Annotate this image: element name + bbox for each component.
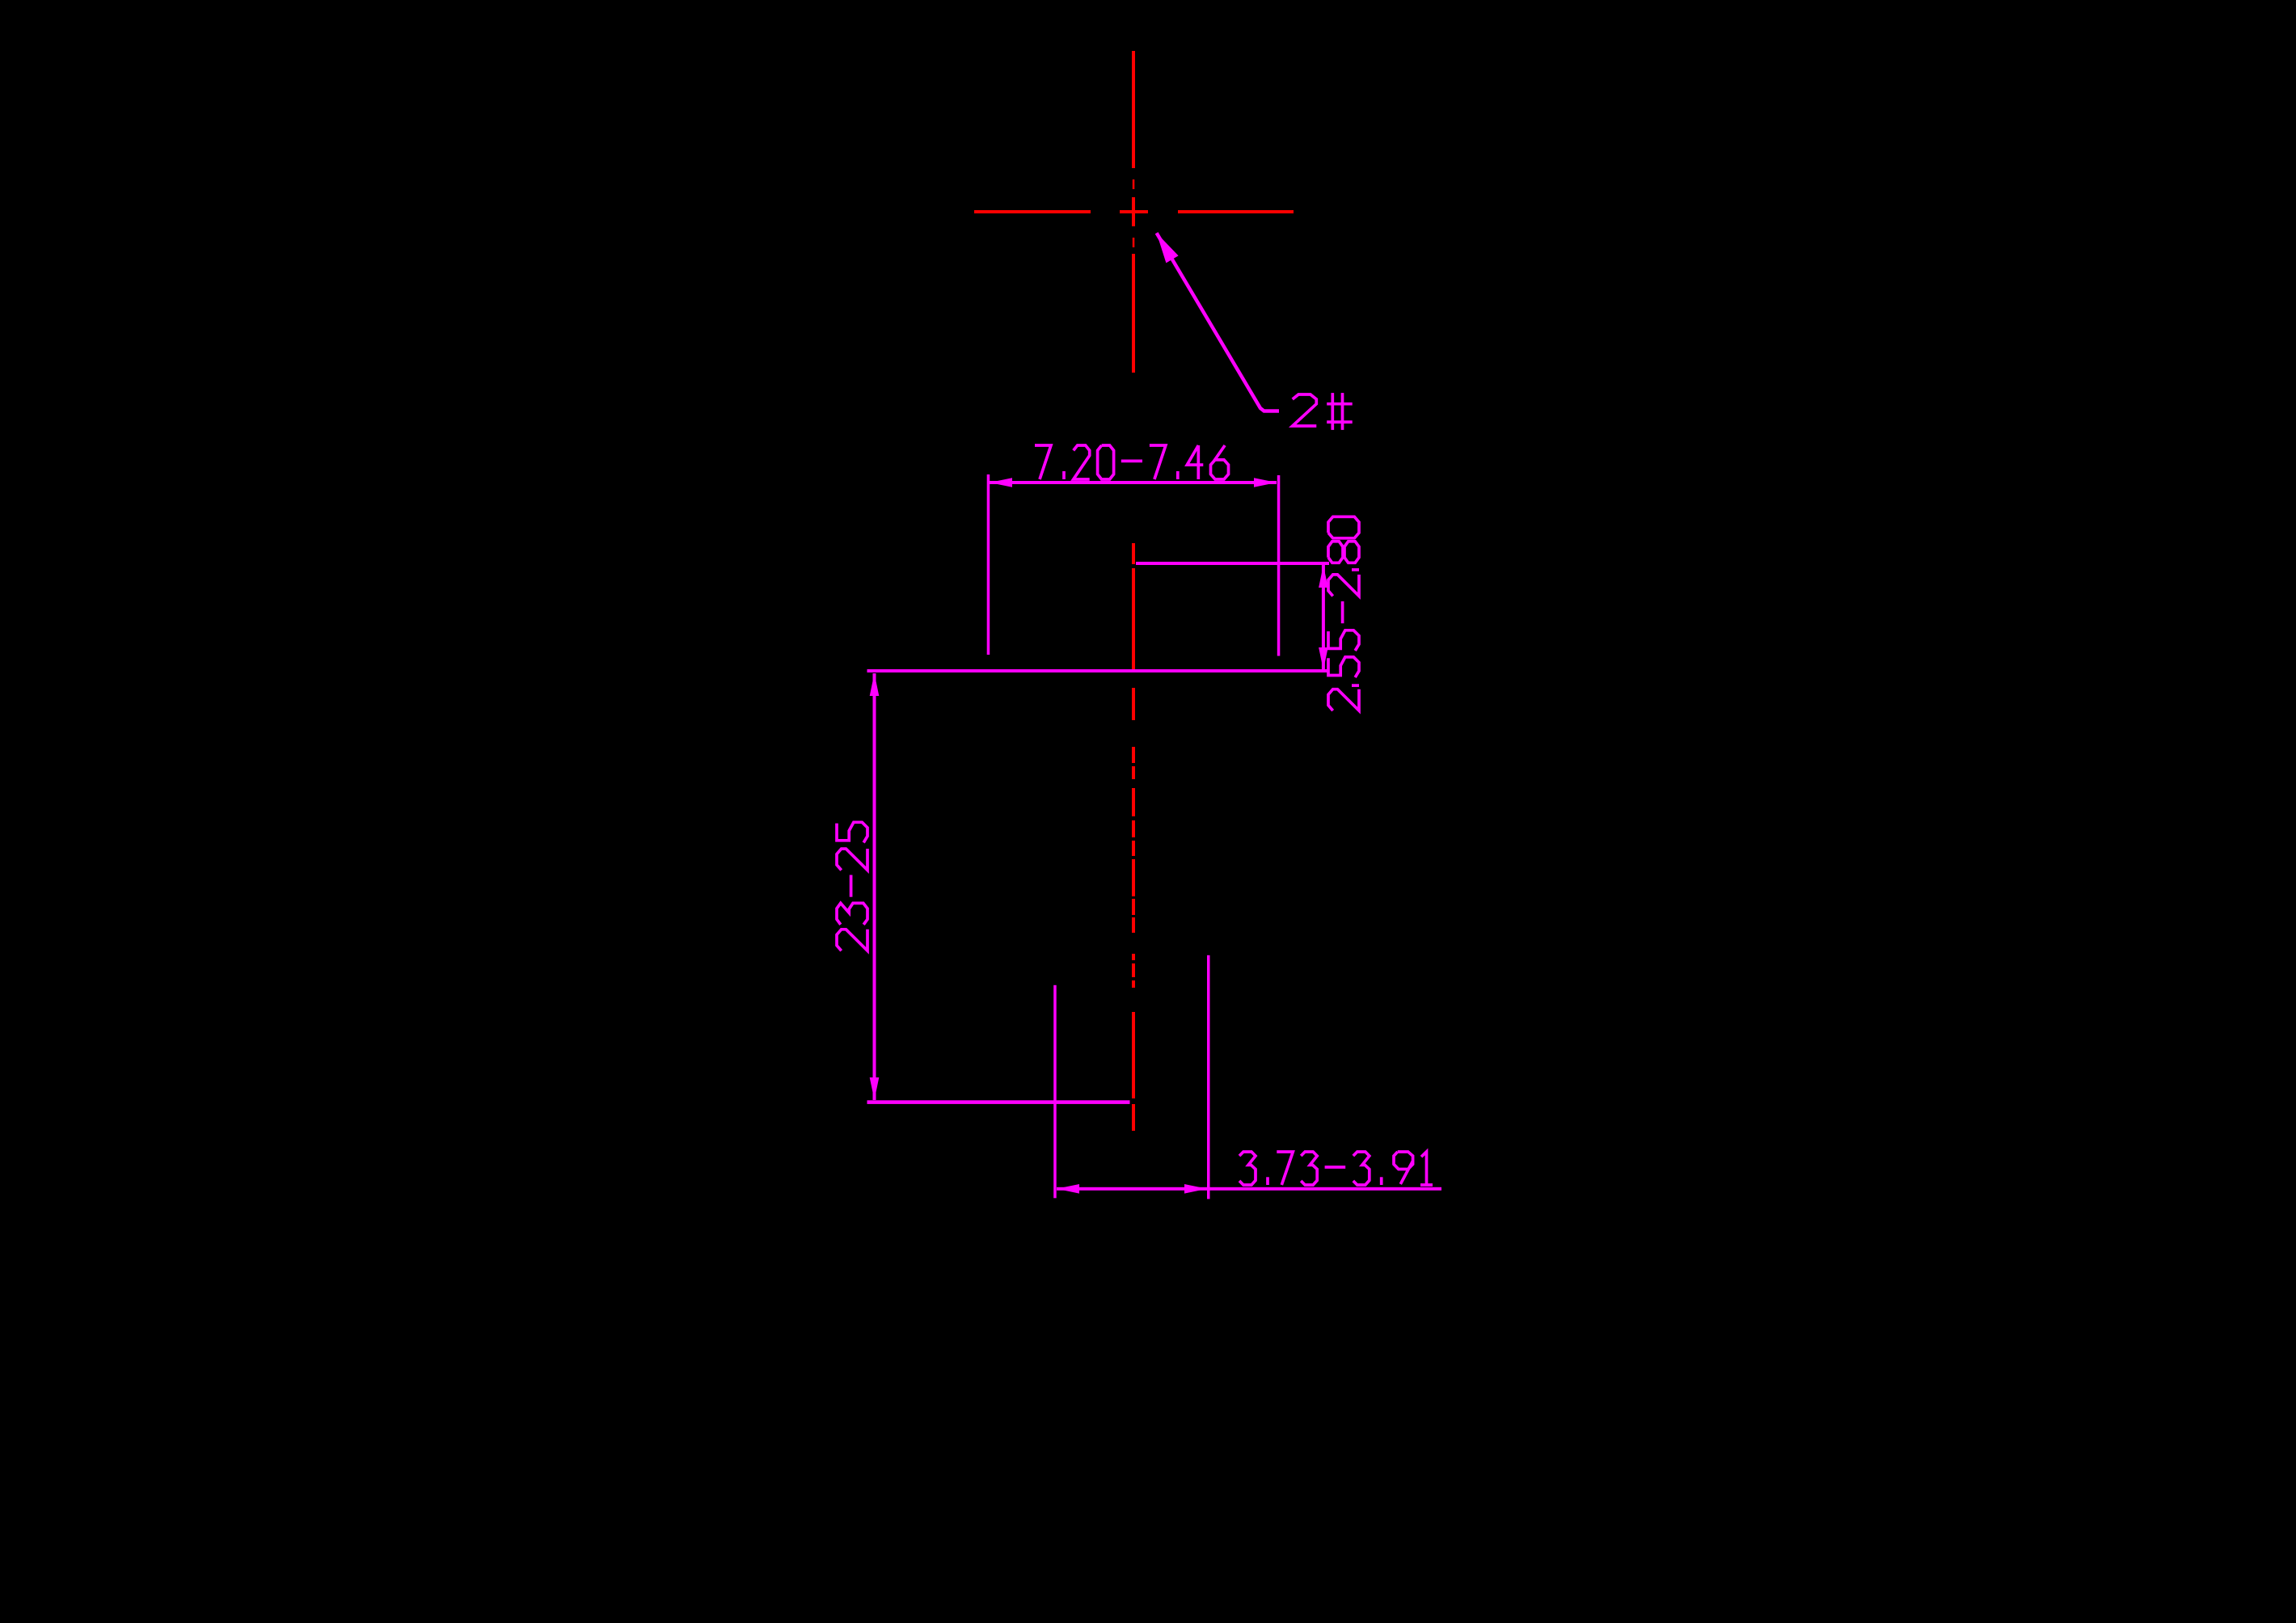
leader line to 2# xyxy=(1157,233,1279,411)
center mark cross horizontal xyxy=(1120,210,1148,213)
dimension 7.20-7.46 text xyxy=(1035,445,1229,479)
bottom object line (tip end) xyxy=(867,1100,1130,1104)
center mark cross vertical xyxy=(1132,197,1135,226)
long object line (shoulder) xyxy=(867,669,1330,672)
dimension 7.20-7.46 right extension line xyxy=(1277,475,1281,656)
dimension 7.20-7.46 right arrow xyxy=(1254,478,1277,487)
dimension 3.73-3.91 right arrow xyxy=(1184,1184,1207,1194)
dimension 3.73-3.91 left arrow xyxy=(1057,1184,1079,1194)
dimension 2.55-2.80 top arrow xyxy=(1319,565,1328,588)
dimension 3.73-3.91 left extension line xyxy=(1053,985,1057,1199)
dimension 23-25 dim line xyxy=(873,673,876,1100)
dimension 2.55-2.80 text (rotated) xyxy=(1328,516,1359,710)
dimension 2.55-2.80 dim line xyxy=(1322,565,1325,670)
dimension 7.20-7.46 left extension line xyxy=(987,474,990,655)
crosshair centerline vertical short dash lower xyxy=(1133,238,1135,247)
part vertical centerline (dash-dot) xyxy=(1132,543,1135,564)
label 2# xyxy=(1293,393,1353,430)
crosshair centerline vertical short dash upper xyxy=(1133,179,1135,189)
upper object line (step edge) xyxy=(1136,562,1329,565)
dimension 23-25 bottom arrow xyxy=(870,1077,880,1100)
dimension 23-25 text (rotated) xyxy=(837,822,867,951)
dimension 2.55-2.80 bottom arrow xyxy=(1319,647,1328,670)
dimension 3.73-3.91 dim line xyxy=(1057,1187,1441,1191)
crosshair centerline vertical top dash xyxy=(1132,51,1135,168)
dimension 3.73-3.91 right extension line xyxy=(1207,955,1210,1199)
dimension 23-25 top arrow xyxy=(870,673,880,696)
crosshair centerline horizontal right dash xyxy=(1178,210,1294,213)
dimension 7.20-7.46 left arrow xyxy=(990,478,1012,487)
dimension 7.20-7.46 dim line xyxy=(990,481,1277,484)
dimension 3.73-3.91 text xyxy=(1239,1152,1433,1185)
crosshair centerline horizontal left dash xyxy=(974,210,1091,213)
crosshair centerline vertical bottom dash xyxy=(1132,254,1135,373)
leader arrowhead xyxy=(1157,233,1179,263)
